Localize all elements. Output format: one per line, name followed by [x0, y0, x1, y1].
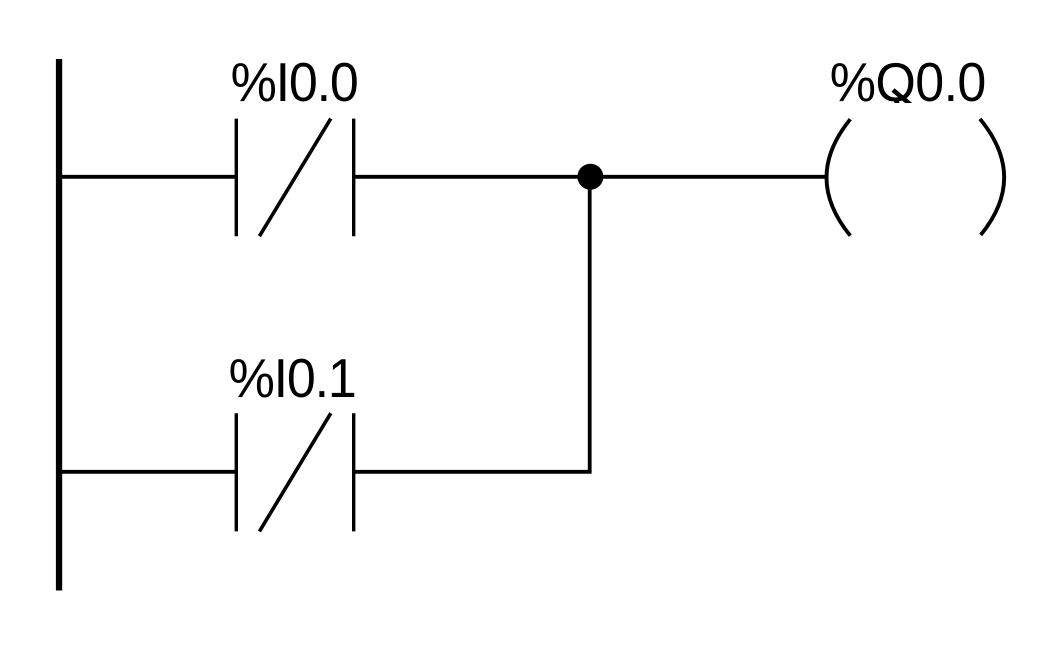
- svg-text:%I0.0: %I0.0: [231, 52, 358, 114]
- svg-text:%I0.1: %I0.1: [229, 348, 356, 410]
- svg-text:%Q0.0: %Q0.0: [830, 52, 986, 114]
